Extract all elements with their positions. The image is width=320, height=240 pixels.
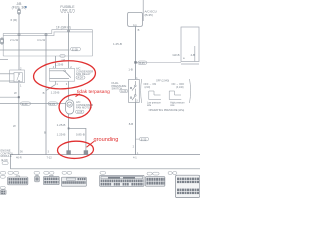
svg-text:1.25-B: 1.25-B [57,123,66,127]
svg-text:1.25-B: 1.25-B [57,132,66,136]
svg-text:MODULE: MODULE [1,154,12,158]
connector E oval [100,171,106,174]
chart step graph high [169,91,181,100]
wire W2 fusible link vertical [68,13,70,68]
svg-text:46-R: 46-R [16,155,22,159]
connector C grid [43,175,59,184]
pin symbol wire W1 box crossing [18,34,20,36]
pin symbol wire W2 box crossing [68,30,70,32]
junction block bottom edge [3,55,92,57]
svg-text:B: B [44,131,46,135]
relay K1 contact [14,73,22,82]
ECM band box [10,155,200,169]
svg-text:E-23: E-23 [22,102,28,106]
relay K2 contact circle [64,70,66,72]
relay K2 pin 1 stub bottom left [54,81,56,84]
junction block J/B stepped top edge [3,30,92,56]
left off-page wire stub y59.5 [0,59,8,61]
svg-text:W: W [14,91,17,95]
pressure chart right paren [189,79,192,103]
svg-text:A-24: A-24 [78,77,84,80]
svg-text:1.25-B: 1.25-B [55,62,63,66]
junction block inner bus wire [0,49,70,51]
wire W1 lower vertical [18,83,20,155]
connector D grid [61,177,86,186]
fuse F36 symbol [18,9,21,14]
chart label low pressure side [147,102,162,107]
svg-text:1-B: 1-B [128,68,132,72]
svg-text:grounding: grounding [94,137,119,143]
svg-text:tidak terpasang: tidak terpasang [77,89,110,95]
svg-text:(B-35): (B-35) [145,13,153,17]
connector A ovals [8,171,19,174]
svg-text:OPERATING PRESSURE (kPa): OPERATING PRESSURE (kPa) [149,109,185,112]
switch S1 connector oval [120,89,128,93]
relay K2 coil line upper [50,70,64,72]
connector G ovals [168,172,177,175]
connector A grid [8,176,28,185]
connector ovals bottom-left column [0,171,5,189]
pressure chart left paren [140,79,143,103]
connector oval on W7 left [21,102,31,106]
svg-text:1.25-B: 1.25-B [51,90,60,94]
connector C ovals [44,171,54,174]
svg-text:B-35: B-35 [139,61,145,65]
svg-text:1.25-B: 1.25-B [113,42,122,46]
fusible link label [60,5,75,13]
connector oval E2B on bus [71,47,81,51]
red ellipse 1 (relay not installed) [33,59,97,91]
svg-text:W: W [13,124,16,128]
svg-text:side: side [147,105,152,107]
relay box U2 (A/C compressor relay, top) [128,12,143,26]
wire W6 motor feed vertical [68,81,70,100]
red leader line to ellipse 2 [76,94,81,97]
blue pen dot [25,6,27,8]
svg-text:4-B: 4-B [191,53,195,57]
wire W7 horizontal to motor [0,103,66,105]
svg-text:E-23: E-23 [50,102,56,106]
motor M1 connector oval A-05 [76,110,85,114]
relay K1 coil line lower [0,80,14,82]
connector B oval [34,171,40,174]
wire W10 below switch [135,102,137,154]
relay K2 name text [76,67,93,76]
svg-text:(3,140): (3,140) [176,86,184,89]
wire W4 vertical [45,33,47,154]
wire W8 motor ground vertical [68,114,70,149]
svg-text:LINK (17): LINK (17) [60,9,75,13]
connector oval small above relay [60,55,65,58]
wire W1 vertical from fuse [18,14,20,70]
junction dot W1 [18,96,20,98]
svg-text:FAN RELAY: FAN RELAY [76,72,91,76]
relay K1 box (left) [10,70,25,83]
svg-text:FAN MOTOR: FAN MOTOR [76,106,92,110]
junction dot motor ground branch [68,128,70,130]
connector F ovals [147,172,159,175]
svg-text:side: side [170,105,175,107]
svg-text:E-35: E-35 [141,137,147,141]
motor M1 body [66,100,74,114]
connector F grid [146,177,165,187]
dual pressure switch S1 name text [112,81,127,91]
svg-text:2 G-W: 2 G-W [10,38,18,42]
ground G1 [66,149,70,154]
svg-text:0.85-B: 0.85-B [76,132,85,136]
off-page wire y97 to W1 [0,96,19,98]
svg-text:4 G-W: 4 G-W [37,38,45,42]
relay K2 coil line lower [50,78,70,80]
connector D ovals [62,171,72,174]
chart step graph low [149,91,161,100]
fuse F2 at left edge inside J/B [0,38,3,44]
svg-text:B: B [43,91,45,95]
svg-text:6 (R): 6 (R) [11,18,18,22]
top-right box B-35 [181,27,199,64]
relay K2 lever [65,71,71,77]
connector oval E-35 at junction [138,61,147,65]
chart label high pressure side [170,102,185,107]
svg-text:E-2B: E-2B [72,47,78,51]
svg-text:A-20: A-20 [121,90,127,93]
connector E grid [100,175,145,186]
svg-text:(E-33): (E-33) [1,159,8,162]
connector B body (2-pin) [35,175,40,182]
svg-text:8-B: 8-B [129,122,133,126]
red ellipse 2 (fan motor) [58,93,92,120]
ECM label text [1,149,14,159]
wire W5 horizontal junction to B-35 [136,61,182,63]
switch S1 contacts [130,81,136,102]
wire stub top border [142,0,144,21]
connector grid H (corner) [0,190,6,195]
relay K1 coil line upper [0,73,14,75]
pin symbol wire W4 box crossing [45,34,47,36]
wire W9 ground branch [69,128,86,149]
relay K2 box [50,68,75,81]
connector oval E-35 on W10 [136,137,149,141]
svg-text:(2,940): (2,940) [162,80,170,83]
red leader line to ellipse 3 [87,141,95,147]
svg-text:(210): (210) [145,86,151,89]
connector oval on W7 right [48,102,58,106]
svg-text:A-05: A-05 [77,111,83,114]
relay K2 connector oval [76,76,85,80]
connector G body [175,175,200,197]
wire W3 vertical main [135,26,137,79]
junction dot J1 [134,61,136,63]
fuse F36 label [12,2,27,10]
svg-text:7-12: 7-12 [47,155,53,159]
motor M1 name text [76,100,93,110]
junction block right edge [92,30,94,56]
ground G2 [84,149,88,154]
switch S1 box [129,80,140,103]
relay U2 side label [145,9,157,16]
svg-text:4-1: 4-1 [133,156,137,160]
svg-text:GR-B: GR-B [173,53,180,57]
svg-text:B: B [138,28,140,32]
red ellipse 3 (grounding) [57,141,94,159]
